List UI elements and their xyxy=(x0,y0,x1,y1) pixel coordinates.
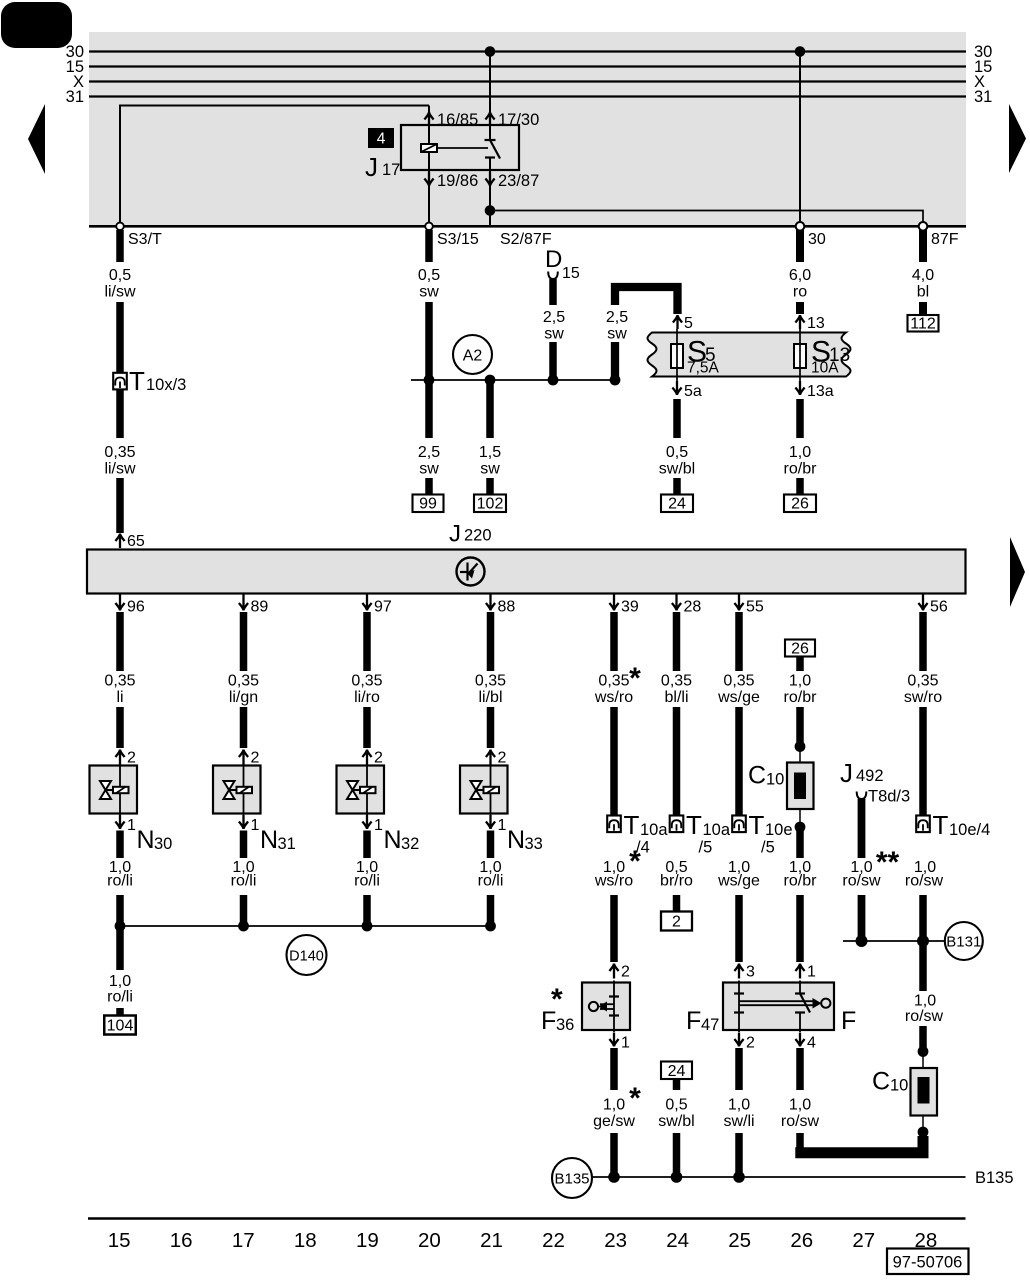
svg-text:1,0: 1,0 xyxy=(603,1097,625,1114)
wire to valve N32 xyxy=(363,707,371,748)
wire 0,35 li/gn xyxy=(240,612,248,671)
svg-text:2: 2 xyxy=(672,914,681,931)
svg-text:10e/4: 10e/4 xyxy=(949,821,990,839)
relay J17 box xyxy=(401,125,519,170)
wire 0,35 ws/ro xyxy=(610,612,618,671)
valve N31 box xyxy=(213,766,261,814)
svg-text:10x/3: 10x/3 xyxy=(146,376,186,394)
svg-text:0,35: 0,35 xyxy=(104,444,135,461)
terminal box 102 xyxy=(474,495,506,513)
svg-text:li/sw: li/sw xyxy=(104,461,136,478)
svg-text:S3/T: S3/T xyxy=(128,231,162,248)
node line B131 xyxy=(843,940,945,942)
svg-text:2: 2 xyxy=(374,750,383,767)
wire 1,0 ro/li to 104 xyxy=(116,928,124,970)
svg-text:7,5A: 7,5A xyxy=(687,360,720,377)
junction c28 node xyxy=(917,935,929,947)
junction xyxy=(238,921,249,932)
svg-text:30: 30 xyxy=(808,231,826,248)
junction xyxy=(485,921,496,932)
svg-text:1,0: 1,0 xyxy=(728,1097,750,1114)
wire 1,0 ro/li N32 xyxy=(363,831,371,859)
svg-text:ro/sw: ro/sw xyxy=(842,873,881,890)
valve N33 pin 1 arrow xyxy=(486,815,495,829)
svg-text:1,0: 1,0 xyxy=(914,993,936,1010)
fuse S5 wire xyxy=(676,329,678,392)
switch F36 box xyxy=(582,983,630,1031)
svg-text:4: 4 xyxy=(377,131,386,148)
node line D140 xyxy=(120,925,491,927)
junction U node xyxy=(610,375,621,386)
wire to pin 65 xyxy=(116,478,124,533)
pin 97 arrow xyxy=(362,595,371,611)
wire U to fuse 5 xyxy=(615,287,678,314)
valve N30 pin 1 arrow xyxy=(115,815,124,829)
terminal box 99 xyxy=(413,495,444,513)
pin 39 arrow xyxy=(609,595,618,611)
svg-text:ro/li: ro/li xyxy=(107,989,133,1006)
fuse S13 xyxy=(794,344,806,368)
junction D15 node xyxy=(548,375,559,386)
junction J492 node xyxy=(856,935,868,947)
F47 pin 3 arrow xyxy=(734,964,743,979)
splice D140 circle xyxy=(287,935,327,975)
connector T10a/5 xyxy=(670,816,684,833)
junction C10 lower bottom xyxy=(918,1127,929,1138)
svg-text:2: 2 xyxy=(746,1035,755,1052)
svg-text:J: J xyxy=(840,758,853,788)
wire to valve N31 xyxy=(240,707,248,748)
svg-text:0,5: 0,5 xyxy=(665,1097,687,1114)
wire 0,35 li/sw xyxy=(116,390,124,439)
svg-text:1,0: 1,0 xyxy=(789,1097,811,1114)
terminal box 26 upper xyxy=(785,640,815,657)
terminal box 2 xyxy=(661,912,692,931)
pin 89 arrow xyxy=(239,595,248,611)
wire 1,0 ro/br to 26 xyxy=(796,399,804,438)
svg-text:sw/li: sw/li xyxy=(723,1113,754,1130)
svg-text:13a: 13a xyxy=(807,383,834,400)
wire 6,0 ro xyxy=(796,230,804,262)
wire D15 2,5 sw xyxy=(549,279,557,305)
svg-text:ro/br: ro/br xyxy=(784,461,818,478)
junction xyxy=(115,921,126,932)
svg-text:N: N xyxy=(260,826,278,854)
wire ws/ro middle xyxy=(610,707,618,815)
svg-text:22: 22 xyxy=(542,1229,565,1252)
svg-text:2: 2 xyxy=(127,750,136,767)
fuse S13 wire xyxy=(799,329,801,392)
connector T10e/5 xyxy=(732,816,746,833)
control unit J220 band xyxy=(87,550,966,594)
svg-text:ro/li: ro/li xyxy=(478,873,504,890)
arrow 23/87 xyxy=(485,172,494,186)
svg-text:1,0: 1,0 xyxy=(789,444,811,461)
nav arrow right top xyxy=(1009,104,1026,173)
terminal S3/15 xyxy=(425,223,433,231)
wire 0,35 li/ro xyxy=(363,612,371,671)
grid numbers xyxy=(108,1229,938,1252)
fuse panel xyxy=(648,333,851,377)
svg-text:sw/bl: sw/bl xyxy=(658,1113,694,1130)
svg-text:li/ro: li/ro xyxy=(354,689,380,706)
relay switch contact xyxy=(485,140,501,170)
bottom frame line xyxy=(88,1217,966,1220)
svg-text:19/86: 19/86 xyxy=(437,172,478,190)
node bus30 right xyxy=(795,46,806,57)
svg-text:23: 23 xyxy=(604,1229,627,1252)
connector cup D15 xyxy=(548,272,558,280)
svg-text:ro/sw: ro/sw xyxy=(905,873,944,890)
F36 pin 2 arrow xyxy=(609,964,618,979)
svg-text:ro: ro xyxy=(793,284,807,301)
svg-text:102: 102 xyxy=(477,496,504,513)
svg-text:20: 20 xyxy=(418,1229,441,1252)
svg-text:1,0: 1,0 xyxy=(789,673,811,690)
nav arrow right mid xyxy=(1010,537,1025,607)
svg-text:104: 104 xyxy=(107,1018,134,1035)
svg-text:B135: B135 xyxy=(975,1169,1014,1187)
svg-text:ro/sw: ro/sw xyxy=(781,1113,820,1130)
svg-text:0,35: 0,35 xyxy=(228,673,259,690)
svg-text:*: * xyxy=(629,662,641,695)
svg-text:li/bl: li/bl xyxy=(478,689,502,706)
wire 0,5 sw/bl lower xyxy=(673,1080,681,1091)
svg-text:ro/li: ro/li xyxy=(354,873,380,890)
svg-text:39: 39 xyxy=(621,599,639,616)
valve N32 pin 2 arrow xyxy=(362,750,371,765)
svg-text:26: 26 xyxy=(791,641,809,658)
svg-text:96: 96 xyxy=(127,599,145,616)
svg-text:24: 24 xyxy=(668,496,686,513)
svg-text:2: 2 xyxy=(251,750,260,767)
arrow fuse pin 5 xyxy=(673,315,682,329)
svg-text:B131: B131 xyxy=(946,934,981,951)
wire 1,5 sw to 102 xyxy=(486,380,494,438)
svg-text:15: 15 xyxy=(562,265,580,282)
terminal 87F xyxy=(919,222,928,231)
svg-text:B135: B135 xyxy=(554,1171,589,1188)
wire 23/87 drop xyxy=(489,170,491,225)
svg-text:br/ro: br/ro xyxy=(660,873,693,890)
svg-text:bl/li: bl/li xyxy=(664,689,688,706)
wire 1,0 ro/sw lower xyxy=(796,1048,804,1090)
svg-text:T: T xyxy=(624,810,640,840)
svg-text:ws/ge: ws/ge xyxy=(717,689,760,706)
svg-text:A2: A2 xyxy=(463,348,483,365)
valve N32 pin 1 arrow xyxy=(362,815,371,829)
junction C10 lower top xyxy=(918,1046,929,1057)
wire S3/15 middle xyxy=(425,302,433,378)
wire S3/T riser xyxy=(120,106,429,226)
svg-text:T: T xyxy=(129,366,145,396)
svg-text:0,35: 0,35 xyxy=(907,673,938,690)
svg-text:17: 17 xyxy=(382,161,400,179)
wire to valve N30 xyxy=(116,707,124,748)
svg-text:4,0: 4,0 xyxy=(912,267,934,284)
svg-text:C: C xyxy=(872,1068,890,1096)
page corner tab xyxy=(1,2,72,48)
valve N32 box xyxy=(337,766,385,814)
svg-text:31: 31 xyxy=(66,88,84,106)
wire 1,0 ge/sw xyxy=(610,1048,618,1090)
svg-text:492: 492 xyxy=(856,767,884,785)
splice B131 circle xyxy=(945,922,983,960)
F36 pin 1 arrow xyxy=(609,1033,618,1047)
wire S3/T middle xyxy=(116,302,124,372)
switch F47 box xyxy=(723,983,834,1031)
bus 31 xyxy=(89,95,966,97)
valve N33 box xyxy=(460,766,508,814)
svg-text:23/87: 23/87 xyxy=(498,172,539,190)
wire 0,5 sw/bl to 24 xyxy=(673,399,681,438)
connector cup T8d/3 xyxy=(857,792,867,800)
terminal box 24 lower xyxy=(661,1062,692,1080)
F47 pin 2 arrow xyxy=(734,1033,743,1047)
svg-text:28: 28 xyxy=(684,599,702,616)
svg-text:sw: sw xyxy=(419,284,439,301)
wire 4,0 bl xyxy=(919,230,927,262)
svg-text:5: 5 xyxy=(684,315,693,332)
svg-text:T: T xyxy=(686,810,702,840)
bus labels left xyxy=(66,43,84,106)
capacitor C10 lower box xyxy=(911,1068,938,1116)
bus labels right xyxy=(974,43,992,106)
svg-text:32: 32 xyxy=(401,835,419,853)
svg-text:ws/ge: ws/ge xyxy=(717,873,760,890)
terminal S3/T xyxy=(116,223,124,231)
pin 28 arrow xyxy=(672,595,681,611)
svg-text:ro/br: ro/br xyxy=(784,873,818,890)
junction S3/15 node xyxy=(424,375,435,386)
svg-text:N: N xyxy=(507,826,525,854)
wire 0,35 sw/ro xyxy=(919,612,927,671)
svg-text:sw: sw xyxy=(480,461,500,478)
junction 23/87 to 87F xyxy=(485,205,496,216)
svg-text:0,5: 0,5 xyxy=(666,444,688,461)
svg-text:T8d/3: T8d/3 xyxy=(868,788,910,806)
wire 1,0 ro/li N31 xyxy=(240,831,248,859)
svg-text:0,35: 0,35 xyxy=(104,673,135,690)
wire 30 drop xyxy=(799,52,801,223)
arrow fuse pin 13 xyxy=(795,315,804,329)
svg-text:C: C xyxy=(748,762,766,790)
svg-text:F: F xyxy=(841,1007,856,1035)
svg-text:99: 99 xyxy=(419,496,437,513)
svg-text:10a: 10a xyxy=(703,821,731,839)
svg-text:0,5: 0,5 xyxy=(418,267,440,284)
svg-text:0,35: 0,35 xyxy=(661,673,692,690)
relay designator black box 4 xyxy=(368,128,394,148)
arrow 17/30 xyxy=(485,112,494,126)
arrow fuse pin 13a xyxy=(795,381,804,395)
svg-text:sw/ro: sw/ro xyxy=(904,689,942,706)
svg-text:19: 19 xyxy=(356,1229,379,1252)
svg-text:10e: 10e xyxy=(765,821,793,839)
svg-text:6,0: 6,0 xyxy=(789,267,811,284)
relay link wire xyxy=(437,147,488,149)
svg-text:1: 1 xyxy=(251,817,260,834)
valve N30 box xyxy=(90,766,138,814)
wire to valve N33 xyxy=(487,707,495,748)
arrow pin 65 xyxy=(115,534,124,549)
svg-text:T: T xyxy=(933,810,949,840)
svg-text:21: 21 xyxy=(480,1229,503,1252)
svg-text:0,35: 0,35 xyxy=(723,673,754,690)
svg-text:10a: 10a xyxy=(640,821,668,839)
svg-text:ro/br: ro/br xyxy=(784,689,818,706)
svg-text:87F: 87F xyxy=(931,231,959,248)
svg-text:F: F xyxy=(686,1007,701,1035)
wire 0,35 ws/ge xyxy=(735,612,743,671)
F47 pin 4 arrow xyxy=(795,1033,804,1047)
svg-text:ro/sw: ro/sw xyxy=(905,1008,944,1025)
svg-text:li/sw: li/sw xyxy=(104,284,136,301)
svg-text:24: 24 xyxy=(666,1229,689,1252)
junction B135 xyxy=(733,1171,745,1183)
bus 30 xyxy=(89,50,966,52)
connector T10x/3 xyxy=(113,373,127,390)
wire 2,5 sw to 99 xyxy=(425,380,433,438)
svg-text:J: J xyxy=(365,152,378,182)
pin 88 arrow xyxy=(486,595,495,611)
node bus30 J17 xyxy=(485,46,496,57)
valve N30 pin 2 arrow xyxy=(115,750,124,765)
svg-text:1,0: 1,0 xyxy=(109,973,131,990)
svg-text:10: 10 xyxy=(890,1077,908,1095)
svg-text:56: 56 xyxy=(930,599,948,616)
arrow fuse pin 5a xyxy=(672,381,681,395)
svg-text:2,5: 2,5 xyxy=(543,309,565,326)
J220 internal symbol xyxy=(457,558,485,586)
diagram number box 97-50706 xyxy=(887,1249,969,1275)
wire 1,0 ro/sw J492 xyxy=(858,799,866,858)
wire sw/ro middle xyxy=(919,707,927,815)
svg-text:0,5: 0,5 xyxy=(109,267,131,284)
junction xyxy=(362,921,373,932)
svg-text:30: 30 xyxy=(154,835,172,853)
pin 56 arrow xyxy=(918,595,927,611)
arrow 16/85 xyxy=(424,112,433,126)
svg-text:24: 24 xyxy=(668,1063,686,1080)
svg-text:2,5: 2,5 xyxy=(606,309,628,326)
terminal 30 xyxy=(796,222,805,231)
svg-text:D140: D140 xyxy=(289,949,324,965)
wire 0,35 li xyxy=(116,612,124,671)
svg-text:1: 1 xyxy=(807,964,816,981)
node line A2 xyxy=(411,379,614,381)
svg-text:2: 2 xyxy=(621,964,630,981)
svg-text:sw: sw xyxy=(607,326,627,343)
svg-text:10: 10 xyxy=(766,771,784,789)
wire 17/30 riser xyxy=(489,52,491,141)
svg-text:26: 26 xyxy=(791,496,809,513)
svg-text:sw: sw xyxy=(419,461,439,478)
svg-text:1: 1 xyxy=(127,817,136,834)
svg-text:N: N xyxy=(137,826,155,854)
svg-text:*: * xyxy=(629,1082,641,1115)
svg-text:31: 31 xyxy=(278,835,296,853)
fuse S5 xyxy=(671,344,683,368)
svg-text:55: 55 xyxy=(746,599,764,616)
svg-text:li/gn: li/gn xyxy=(229,689,258,706)
power rail band xyxy=(89,32,966,226)
terminal box 104 xyxy=(104,1016,136,1035)
wire to 87F xyxy=(490,211,923,223)
svg-text:0,35: 0,35 xyxy=(475,673,506,690)
svg-text:S3/15: S3/15 xyxy=(437,231,479,248)
junction B135 xyxy=(671,1171,683,1183)
svg-text:27: 27 xyxy=(852,1229,875,1252)
bus X xyxy=(89,80,966,82)
F47 pin 1 arrow xyxy=(795,964,804,979)
wire bl/li middle xyxy=(673,707,681,815)
wire 1,0 ro/br upper xyxy=(796,657,804,672)
svg-text:1,5: 1,5 xyxy=(479,444,501,461)
pin 55 arrow xyxy=(734,595,743,611)
arrow 19/86 xyxy=(424,172,433,186)
wire 1,0 ro/li N30 xyxy=(116,831,124,859)
svg-text:112: 112 xyxy=(910,316,936,333)
svg-text:5a: 5a xyxy=(684,383,702,400)
svg-text:3: 3 xyxy=(746,964,755,981)
junction C10 top xyxy=(795,741,806,752)
wire bar to C10 lower xyxy=(795,1136,923,1153)
terminal box 24 xyxy=(661,495,693,513)
valve N33 pin 2 arrow xyxy=(486,750,495,765)
wire 0,35 bl/li xyxy=(673,612,681,671)
svg-text:li: li xyxy=(116,689,123,706)
svg-text:D: D xyxy=(545,246,562,273)
wire S3/T 0,5 li/sw upper xyxy=(116,230,124,262)
relay coil xyxy=(421,144,437,152)
capacitor C10 upper box xyxy=(787,763,814,810)
wire S3/15 0,5 sw xyxy=(425,230,433,262)
svg-text:ws/ro: ws/ro xyxy=(594,689,633,706)
junction C10 bottom xyxy=(795,822,806,833)
terminal box 26 xyxy=(784,495,816,513)
svg-text:ro/li: ro/li xyxy=(231,873,257,890)
svg-text:18: 18 xyxy=(294,1229,317,1252)
svg-text:88: 88 xyxy=(498,599,516,616)
svg-text:13: 13 xyxy=(807,315,825,332)
wire 1,0 sw/li xyxy=(735,1048,743,1090)
wire 0,35 li/bl xyxy=(487,612,495,671)
svg-text:97-50706: 97-50706 xyxy=(893,1254,963,1272)
valve N31 pin 2 arrow xyxy=(239,750,248,765)
pin 96 arrow xyxy=(115,595,124,611)
connector T10a/4 xyxy=(607,816,621,833)
junction 102 node xyxy=(485,375,496,386)
svg-text:15: 15 xyxy=(108,1229,131,1252)
svg-text:97: 97 xyxy=(374,599,392,616)
svg-text:ge/sw: ge/sw xyxy=(593,1113,635,1130)
wire 1,0 ro/li N33 xyxy=(487,831,495,859)
ground line B135 xyxy=(592,1176,966,1178)
splice A2 circle xyxy=(453,335,492,374)
svg-text:sw/bl: sw/bl xyxy=(659,461,695,478)
connector T10e/4 xyxy=(916,816,930,833)
svg-text:/5: /5 xyxy=(699,839,713,857)
wire 1,0 ro/br lower xyxy=(796,829,804,858)
svg-text:89: 89 xyxy=(251,599,269,616)
svg-text:N: N xyxy=(384,826,402,854)
svg-text:4: 4 xyxy=(807,1035,816,1052)
svg-text:J: J xyxy=(449,521,461,548)
svg-text:1: 1 xyxy=(498,817,507,834)
svg-text:1: 1 xyxy=(621,1035,630,1052)
svg-text:65: 65 xyxy=(127,533,145,550)
